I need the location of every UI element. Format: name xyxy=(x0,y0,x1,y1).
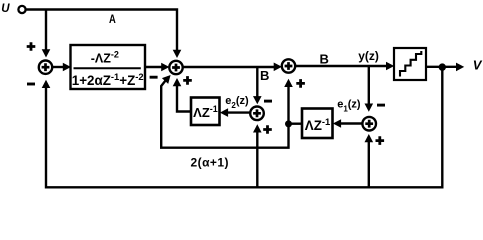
wire y drop to e1 xyxy=(365,66,374,112)
wire J up to S3 xyxy=(284,79,293,124)
wire e1 to D2 xyxy=(333,119,363,128)
wire B drop to e2 xyxy=(253,67,262,104)
wire branch up to e2 plus xyxy=(253,124,262,187)
svg-text:e1(z): e1(z) xyxy=(337,99,361,114)
sign minus e2 top xyxy=(264,100,272,103)
wire Q to V with junction dot xyxy=(426,63,464,72)
sign minus H1 output xyxy=(150,76,158,79)
wire branch down to S1 xyxy=(42,10,51,58)
svg-text:2(α+1): 2(α+1) xyxy=(191,156,229,170)
wire 2(a+1) path J down left up diagonal to S2 xyxy=(161,75,288,148)
input terminal xyxy=(18,6,25,13)
wire D1 up to S2 xyxy=(173,78,191,112)
summing junction S5 e1 xyxy=(362,117,376,131)
wire H1 to S2 xyxy=(145,63,169,72)
svg-text:ΛZ-1: ΛZ-1 xyxy=(305,116,330,133)
svg-text:B: B xyxy=(320,52,329,67)
wire S3 to quantizer xyxy=(295,62,394,71)
wire D2 to junction J xyxy=(289,122,303,124)
wire S1 to H1 xyxy=(52,63,71,72)
delay block D2 xyxy=(302,109,333,139)
wire S2 to S3 xyxy=(183,63,282,72)
summing junction S3 xyxy=(282,59,295,72)
svg-text:1+2αZ-1+Z-2: 1+2αZ-1+Z-2 xyxy=(72,71,144,88)
summing junction S4 e2 xyxy=(250,107,264,121)
sign plus S3 bottom right xyxy=(296,79,305,88)
svg-text:-ΛZ-2: -ΛZ-2 xyxy=(91,50,119,66)
sign minus S1 bottom xyxy=(27,83,35,86)
svg-text:e2(z): e2(z) xyxy=(225,95,249,110)
svg-text:B: B xyxy=(260,68,269,83)
sign plus e1 bottom xyxy=(376,136,385,145)
sign plus S2 bottom right xyxy=(183,76,192,85)
wire branch up to e1 plus xyxy=(365,134,374,187)
filter block H1 xyxy=(71,45,146,89)
summing junction S1 xyxy=(39,60,52,73)
junction J dot xyxy=(285,120,292,127)
wire e2 to D1 xyxy=(220,108,250,117)
summing junction S2 xyxy=(169,61,182,74)
svg-text:ΛZ-1: ΛZ-1 xyxy=(193,104,218,120)
svg-text:y(z): y(z) xyxy=(358,49,379,63)
sign minus e1 top xyxy=(377,104,385,107)
sign plus e2 bottom xyxy=(263,125,272,134)
svg-text:U: U xyxy=(1,3,10,15)
quantizer block Q xyxy=(394,48,426,80)
wire top rail A xyxy=(26,10,182,59)
svg-text:A: A xyxy=(109,12,116,26)
wire feedback V bottom loop to S1 xyxy=(42,67,443,187)
sign plus S1 top xyxy=(27,42,36,51)
delay block D1 xyxy=(191,98,220,126)
svg-text:V: V xyxy=(473,57,483,72)
